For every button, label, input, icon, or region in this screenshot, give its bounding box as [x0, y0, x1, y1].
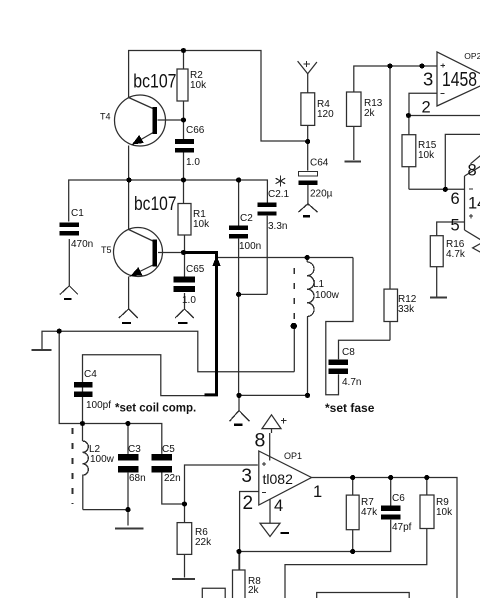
svg-text:T5: T5	[101, 245, 112, 255]
svg-text:10k: 10k	[190, 80, 207, 91]
svg-text:5: 5	[451, 217, 460, 235]
svg-text:2k: 2k	[248, 585, 260, 596]
svg-text:L1: L1	[313, 279, 325, 290]
svg-text:120: 120	[317, 109, 334, 120]
svg-text:47pf: 47pf	[392, 522, 412, 533]
svg-text:T4: T4	[100, 112, 111, 122]
svg-text:*set coil comp.: *set coil comp.	[115, 403, 196, 415]
svg-text:470n: 470n	[71, 239, 93, 250]
svg-text:bc107: bc107	[134, 194, 177, 215]
svg-text:22n: 22n	[164, 473, 181, 484]
svg-text:C8: C8	[342, 347, 355, 358]
svg-text:4: 4	[274, 497, 283, 515]
svg-text:100pf: 100pf	[86, 400, 111, 411]
svg-text:3.3n: 3.3n	[268, 221, 287, 232]
svg-text:C4: C4	[84, 369, 97, 380]
svg-text:OP2: OP2	[464, 51, 480, 61]
svg-text:C64: C64	[310, 158, 329, 169]
svg-text:2: 2	[243, 493, 254, 514]
svg-text:4.7k: 4.7k	[446, 249, 466, 260]
svg-text:100n: 100n	[239, 241, 261, 252]
svg-text:10k: 10k	[193, 219, 210, 230]
svg-text:OP1: OP1	[284, 451, 302, 461]
svg-text:C6: C6	[392, 493, 405, 504]
svg-text:100w: 100w	[315, 290, 340, 301]
svg-text:2k: 2k	[364, 108, 376, 119]
svg-text:*set fase: *set fase	[325, 401, 375, 415]
svg-text:C66: C66	[186, 125, 205, 136]
svg-text:220µ: 220µ	[310, 189, 333, 200]
svg-text:10k: 10k	[418, 150, 435, 161]
svg-text:C1: C1	[71, 208, 84, 219]
svg-text:C3: C3	[128, 444, 141, 455]
svg-text:tl082: tl082	[263, 471, 294, 487]
svg-text:6: 6	[451, 190, 460, 208]
svg-text:3: 3	[241, 466, 252, 487]
svg-text:22k: 22k	[195, 537, 212, 548]
svg-text:100w: 100w	[90, 454, 115, 465]
svg-text:2: 2	[422, 98, 431, 116]
svg-text:C5: C5	[162, 444, 175, 455]
svg-text:33k: 33k	[398, 304, 415, 315]
svg-text:C65: C65	[186, 264, 205, 275]
svg-text:1.0: 1.0	[186, 157, 200, 168]
svg-text:3: 3	[423, 68, 433, 89]
svg-text:68n: 68n	[129, 473, 146, 484]
svg-text:1: 1	[313, 483, 322, 501]
svg-text:bc107: bc107	[133, 72, 176, 93]
svg-text:10k: 10k	[436, 507, 453, 518]
svg-text:1458: 1458	[442, 68, 477, 91]
svg-text:4.7n: 4.7n	[342, 377, 361, 388]
svg-text:C2.1: C2.1	[268, 189, 290, 200]
svg-text:8: 8	[255, 429, 266, 451]
svg-text:47k: 47k	[361, 507, 378, 518]
svg-text:8: 8	[468, 162, 477, 180]
svg-text:14: 14	[468, 195, 480, 213]
svg-text:C2: C2	[240, 213, 253, 224]
svg-text:1.0: 1.0	[182, 295, 196, 306]
